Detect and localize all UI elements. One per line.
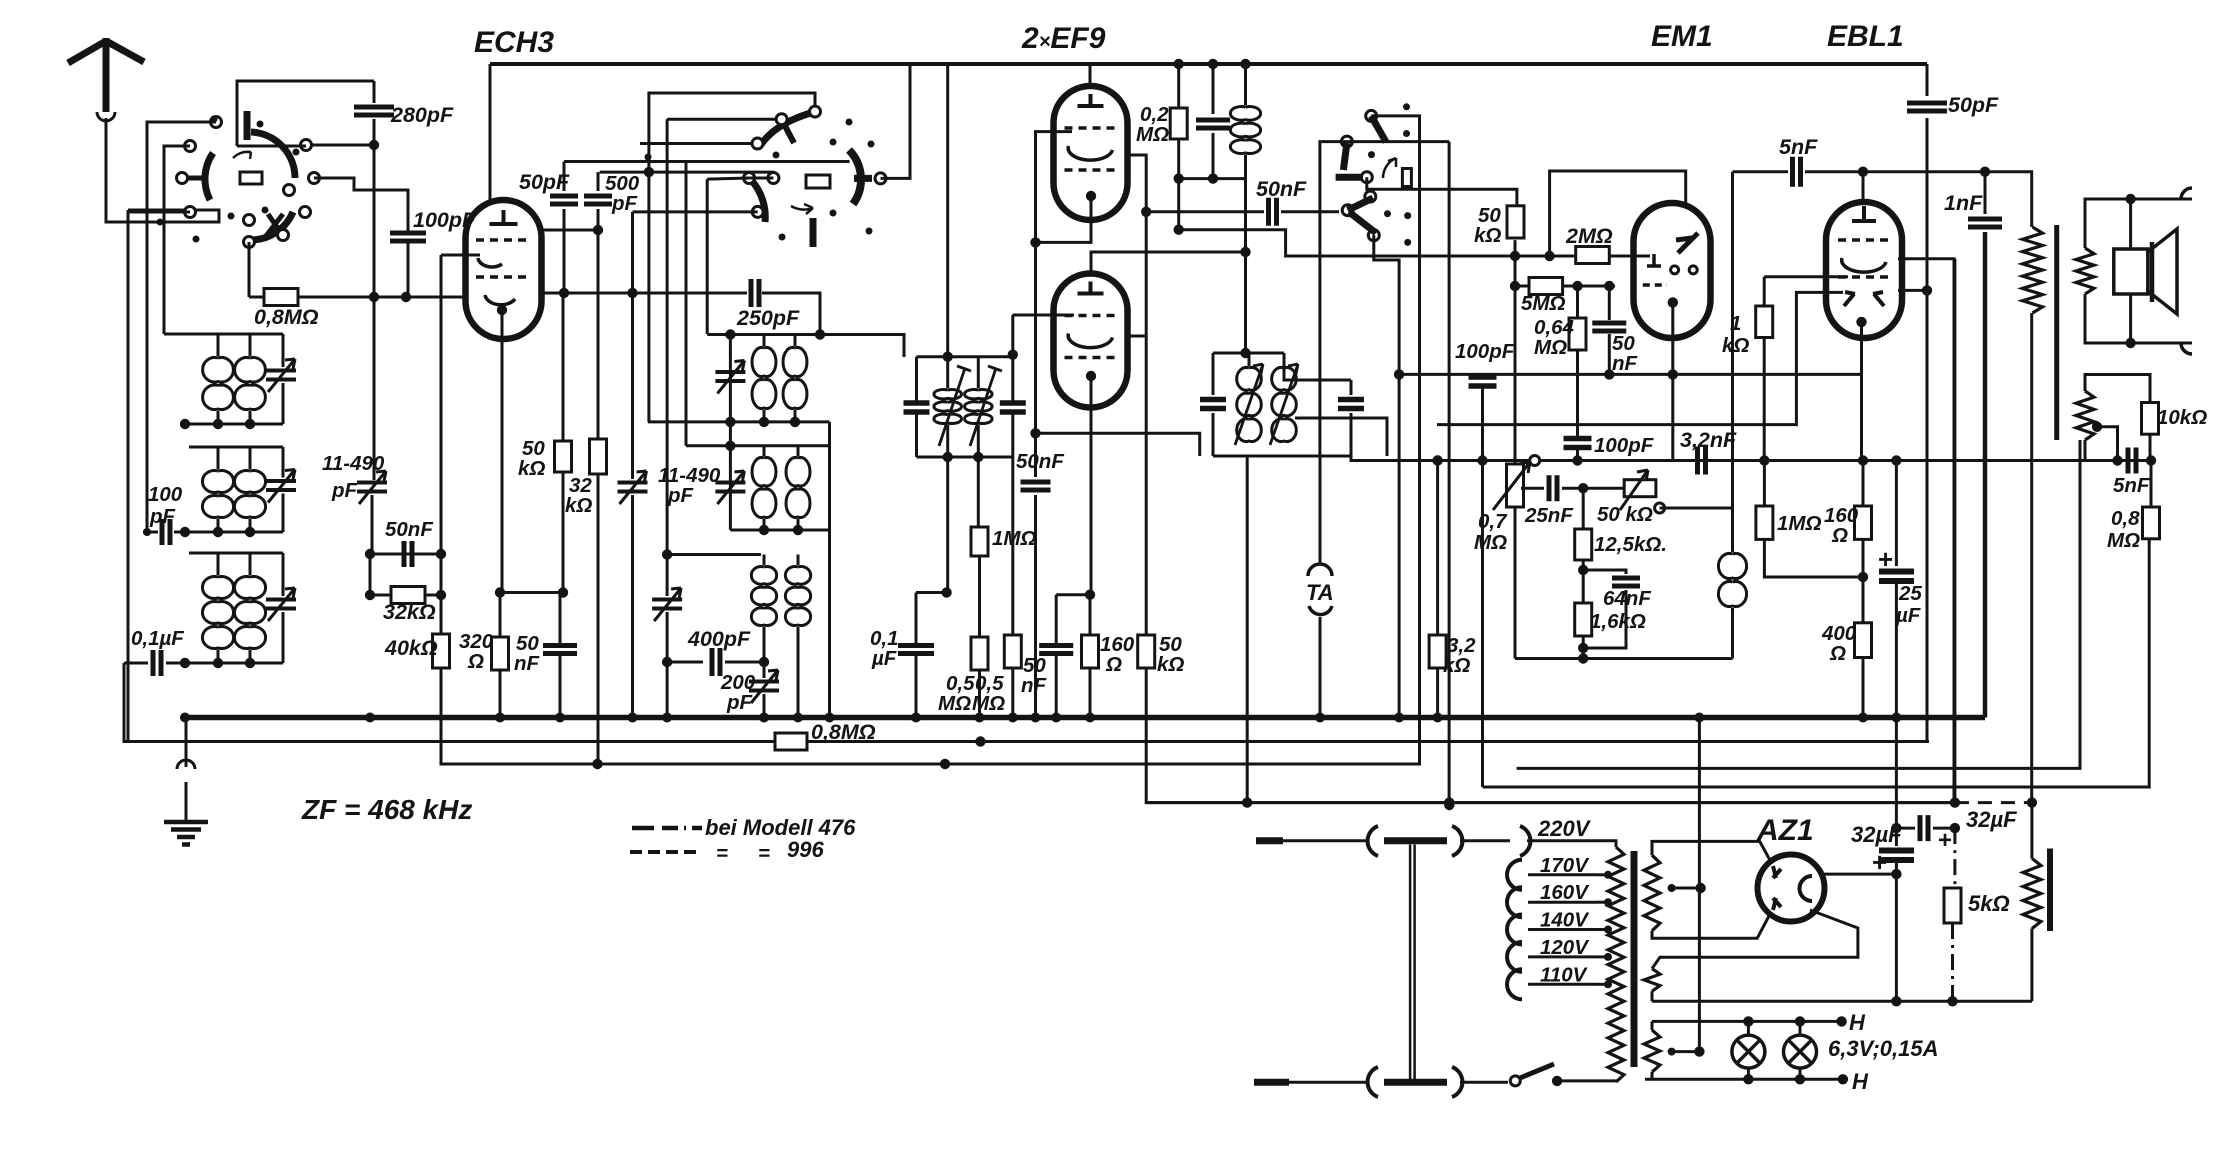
capacitor 25nF	[1521, 487, 1544, 490]
svg-text:32µF: 32µF	[1966, 807, 2017, 832]
svg-text:EBL1: EBL1	[1827, 20, 1904, 53]
wire screen row to switch	[1179, 230, 1515, 256]
capacitor 50nF	[404, 541, 412, 567]
capacitor 280pF	[354, 107, 394, 115]
anode load 0.2M	[1174, 59, 1184, 69]
svg-text:100pF: 100pF	[1594, 434, 1654, 457]
wire screen down	[1145, 336, 1148, 635]
pilot lamps	[1732, 1035, 1765, 1068]
svg-text:170V: 170V	[1540, 854, 1590, 877]
heater tap	[1668, 1048, 1676, 1056]
svg-text:3,2nF: 3,2nF	[1680, 428, 1737, 452]
wire EF9-2 grid	[1013, 314, 1075, 317]
wire box bottom	[237, 145, 306, 148]
wire tank mid rail	[686, 444, 830, 447]
svg-text:50nF: 50nF	[385, 518, 433, 541]
tube EM1	[1634, 203, 1711, 338]
capacitor 5nF feedback	[1733, 170, 1789, 173]
wire IFT1 secondary bottom	[977, 457, 980, 527]
wire switch3 frame left	[1320, 142, 1347, 456]
rectifier AZ1	[1758, 855, 1825, 922]
wire left column x164	[164, 333, 189, 336]
wire grid line	[541, 292, 747, 295]
svg-text:0,8MΩ: 0,8MΩ	[254, 305, 319, 329]
svg-text:AZ1: AZ1	[1756, 814, 1814, 847]
svg-text:MΩ: MΩ	[1474, 531, 1507, 554]
IFT1 secondary coil	[965, 390, 993, 424]
resistor 32k screen	[597, 230, 600, 439]
osc coil 3	[751, 567, 776, 626]
wire tone wiper	[1660, 172, 1733, 508]
rail 3b	[1517, 440, 2080, 768]
svg-text:25nF: 25nF	[1524, 504, 1573, 527]
wire 400pF row	[667, 661, 703, 664]
svg-text:nF: nF	[1612, 352, 1638, 375]
ground symbol	[185, 718, 188, 768]
capacitor 5nF tone	[2128, 448, 2136, 474]
wire AZ1 plate2	[1652, 914, 1770, 938]
wire osc grid	[633, 210, 758, 213]
svg-text:280pF: 280pF	[390, 103, 454, 127]
wire AZ1 plate1	[1652, 841, 1771, 862]
tube EF9 first	[1054, 86, 1128, 220]
capacitor 100pF AVC	[1469, 377, 1497, 386]
tube ECH3	[466, 200, 542, 339]
legend model 996	[630, 850, 696, 854]
capacitor 0.1uF	[124, 662, 148, 665]
svg-text:5nF: 5nF	[2113, 474, 2150, 497]
osc coil 2a	[752, 458, 776, 518]
svg-text:=: =	[716, 842, 728, 865]
capacitor 50pF top	[1926, 64, 1929, 96]
svg-text:kΩ: kΩ	[518, 457, 545, 480]
wire AZ1 filament	[1652, 910, 1858, 969]
mains top lead	[1256, 837, 1283, 844]
transformer core	[1631, 851, 1638, 1067]
EM1 internals	[1676, 233, 1698, 253]
wire switch3 to EM1 grid	[1367, 177, 1517, 206]
resistor 320 ohm	[499, 593, 502, 638]
osc tuning line	[729, 335, 732, 531]
rail 3	[440, 116, 1420, 764]
svg-text:32kΩ: 32kΩ	[383, 600, 436, 624]
potentiometer 50k tone	[1624, 480, 1656, 497]
svg-text:40kΩ: 40kΩ	[384, 636, 438, 660]
anode cap	[1208, 59, 1218, 69]
svg-text:100pF: 100pF	[1455, 340, 1515, 363]
svg-text:pF: pF	[149, 505, 176, 528]
wire EF9-1 grid	[1036, 132, 1073, 477]
variable capacitor osc tank1	[715, 372, 745, 381]
switch S1b lower arc	[252, 212, 293, 240]
IFT1 capacitor primary	[915, 357, 918, 402]
svg-text:TA: TA	[1306, 580, 1334, 605]
switch S1a rotor arc	[251, 132, 295, 178]
wire EF9-2 screen	[1127, 155, 1146, 336]
svg-text:996: 996	[787, 837, 824, 862]
wire x124 left edge	[124, 663, 1929, 742]
variable capacitor padder	[631, 293, 634, 479]
svg-text:64nF: 64nF	[1603, 587, 1651, 610]
OT core	[2054, 225, 2059, 440]
wire 50pF top rail	[564, 160, 850, 163]
svg-text:pF: pF	[331, 479, 358, 502]
switch position dots	[211, 116, 218, 123]
svg-text:MΩ: MΩ	[1534, 336, 1567, 359]
band switch 2 lever arc	[760, 112, 814, 146]
wire antenna down	[106, 118, 219, 222]
svg-text:pF: pF	[726, 691, 753, 714]
variable capacitor tank3	[666, 555, 669, 597]
resistor 50k EM1	[1507, 206, 1524, 238]
wire IFT1 primary return	[946, 457, 949, 593]
potentiometer 0.7M	[1530, 456, 1540, 466]
wire EBL1 cathode	[1856, 317, 1866, 327]
HT center tap	[1668, 884, 1676, 892]
wire 32k row	[370, 554, 441, 595]
wire EBL1 diode1	[1898, 259, 1954, 803]
wire EM1 cathode	[1671, 302, 1674, 460]
wire AVC branch	[1036, 433, 1200, 456]
secondary filament winding	[1644, 969, 1660, 992]
svg-text:400pF: 400pF	[687, 627, 751, 651]
svg-text:H: H	[1849, 1010, 1866, 1035]
resistor 160 ohm EBL1	[1862, 461, 1865, 507]
legend model 476	[632, 826, 702, 831]
variable capacitor 200pF	[763, 662, 766, 678]
svg-text:µF: µF	[871, 647, 897, 670]
wire cathode network	[1056, 593, 1090, 596]
resistor 0.64M	[1576, 286, 1579, 318]
anode coil	[1240, 59, 1250, 69]
svg-text:=: =	[758, 842, 770, 865]
wire x145 column	[146, 146, 149, 532]
rail 4	[1483, 539, 2150, 787]
svg-text:MΩ: MΩ	[972, 692, 1005, 715]
wire ECH3 anode	[489, 64, 492, 202]
wire screen line	[541, 229, 598, 232]
wire terminal 146 left	[164, 146, 190, 334]
svg-text:100: 100	[148, 483, 183, 506]
transformer primary winding	[1608, 847, 1624, 1082]
wire switch3 stub	[1374, 235, 1399, 716]
svg-text:5nF: 5nF	[1779, 135, 1818, 159]
switch 2 terminals	[752, 138, 763, 149]
IFT1 primary coil	[934, 390, 962, 424]
wire 100pF from switch	[314, 178, 408, 232]
wire switch to 0.8M	[248, 242, 251, 297]
capacitor 32uF first	[1895, 718, 1898, 847]
band switch 1 frame box	[237, 81, 374, 146]
resistor 0.5M second	[1011, 315, 1014, 355]
wire tank1 bottom rail	[648, 420, 830, 423]
capacitor 500pF	[597, 172, 600, 191]
resistor 1k	[1763, 277, 1766, 306]
wire AZ1 output	[1824, 873, 1896, 876]
resistor 50k	[562, 293, 565, 441]
input coil set 1	[189, 333, 283, 336]
capacitor 100pF	[390, 233, 426, 241]
resistor 1M	[971, 527, 988, 556]
capacitor 50nF cathode	[559, 593, 562, 644]
primary taps	[1507, 860, 1522, 890]
osc tank 3 top	[667, 553, 761, 556]
svg-text:25: 25	[1898, 582, 1922, 605]
resistor 0.8M AVC	[775, 733, 807, 750]
capacitor 50nF EM1	[1608, 286, 1611, 320]
wire anode to OT	[1863, 170, 1985, 173]
wire 500pF top rail	[600, 172, 773, 178]
resistor 1M bias	[1763, 461, 1766, 507]
svg-text:MΩ: MΩ	[2107, 529, 2140, 552]
svg-text:bei Modell 476: bei Modell 476	[705, 815, 856, 840]
wire EBL1 anode	[1862, 172, 1865, 203]
heater wires	[1652, 1020, 1842, 1023]
svg-text:1MΩ: 1MΩ	[1777, 512, 1821, 535]
resistor 400 ohm	[1862, 577, 1865, 623]
capacitor 50nF AVC	[1021, 482, 1051, 490]
resistor 0.5M first	[971, 637, 988, 670]
wire ECH3 grid1	[441, 254, 480, 257]
resistor 5M	[1515, 285, 1529, 288]
svg-text:kΩ: kΩ	[1157, 653, 1184, 676]
rail 5 dashed-variant	[1146, 801, 1955, 804]
capacitor 64nF	[1583, 570, 1626, 574]
svg-text:+: +	[1938, 827, 1952, 854]
antenna	[68, 38, 144, 112]
tube EBL1	[1826, 202, 1902, 338]
osc coil 1a	[752, 347, 776, 408]
tube EF9 second	[1091, 252, 1246, 271]
wire pot down	[1514, 507, 1517, 659]
wire EM1 grid	[1515, 255, 1650, 258]
wire 100pF down	[1481, 374, 1484, 376]
resistor 12.5k	[1582, 488, 1585, 529]
wire ECH3 cathode	[497, 305, 507, 315]
svg-text:µF: µF	[1895, 604, 1921, 627]
IFT2 cap secondary	[1350, 380, 1353, 395]
speaker loop	[2085, 199, 2192, 248]
wire tank top rail	[707, 335, 904, 358]
wire left vertical to bottom rail	[127, 210, 130, 742]
capacitor 0.1uF EF9 cathode	[915, 593, 918, 644]
input coil set 3	[189, 552, 283, 555]
switch S1 rotor center	[240, 172, 262, 184]
svg-text:kΩ: kΩ	[1722, 334, 1749, 357]
wire terminal 212	[128, 211, 190, 214]
wire switch3 frame top	[1371, 116, 1419, 764]
svg-text:1nF: 1nF	[1944, 191, 1983, 215]
svg-text:kΩ: kΩ	[1474, 224, 1501, 247]
capacitor 1nF	[1984, 172, 1987, 214]
capacitor 50nF cathode EF9-2	[1039, 646, 1073, 654]
svg-text:50nF: 50nF	[1016, 450, 1064, 473]
svg-text:Ω: Ω	[1105, 653, 1122, 676]
resistor 1.6k	[1575, 603, 1592, 636]
switch 2 rotor center	[806, 175, 830, 188]
IFT2 cap primary	[1212, 353, 1215, 395]
svg-text:H: H	[1852, 1069, 1869, 1094]
wire anode RLC bottom	[1179, 177, 1246, 180]
switch S1a left arc	[205, 153, 213, 200]
resistor 2M	[1576, 247, 1610, 264]
svg-text:kΩ: kΩ	[1443, 654, 1470, 677]
resistor 50k screen divider	[1138, 635, 1155, 668]
wire EF9-2 cathode	[1086, 371, 1096, 381]
svg-text:5kΩ: 5kΩ	[1968, 891, 2010, 916]
capacitor 100pF inline	[143, 531, 158, 534]
wire switch2 frame 3	[640, 142, 758, 145]
svg-text:0,7: 0,7	[1478, 510, 1508, 533]
wire anode to IFT2	[1244, 179, 1247, 353]
resistor 0.8 Mohm input	[249, 296, 264, 299]
wire switch terminal right	[306, 144, 374, 147]
variable capacitor 11-490pF gang1	[357, 483, 387, 492]
speaker	[2129, 199, 2132, 249]
IFT1 bottom rail	[917, 456, 1013, 459]
wire DC bottom	[1652, 1000, 2032, 1003]
capacitor 25uF	[1895, 461, 1898, 567]
input coil set 2	[189, 446, 283, 449]
svg-text:nF: nF	[514, 652, 540, 675]
wire switch3 frame right	[1347, 140, 1449, 143]
capacitor 400pF	[712, 648, 720, 676]
osc coil 1b	[783, 347, 807, 408]
svg-text:EM1: EM1	[1651, 20, 1713, 53]
IFT2 primary coil	[1237, 367, 1262, 441]
resistor 5k bleeder	[1953, 828, 1956, 888]
svg-text:140V: 140V	[1540, 909, 1590, 932]
svg-text:160V: 160V	[1540, 881, 1590, 904]
capacitor 3.2nF	[1698, 447, 1706, 475]
IFT1 capacitor secondary	[1011, 355, 1014, 402]
svg-text:MΩ: MΩ	[938, 692, 971, 715]
switch terminals	[211, 117, 222, 128]
wire 50pF rail end	[685, 162, 688, 446]
IFT2 secondary coil	[1272, 367, 1297, 441]
wire AVC long	[1399, 373, 1863, 376]
wire 250pF row	[751, 279, 759, 307]
svg-text:2MΩ: 2MΩ	[1565, 224, 1613, 248]
wire EM1 anode hat	[1550, 171, 1686, 254]
wire terminal 122 left	[147, 122, 216, 146]
secondary 6.3V winding	[1651, 1021, 1654, 1030]
svg-text:50pF: 50pF	[519, 170, 570, 194]
secondary HT winding	[1644, 855, 1660, 931]
svg-text:ZF = 468 kHz: ZF = 468 kHz	[301, 794, 472, 825]
svg-text:Ω: Ω	[467, 650, 484, 673]
wire EF9-1 cathode	[1086, 191, 1096, 201]
capacitor 100pF ratio detector	[1564, 439, 1592, 448]
resistor 3.2k	[1436, 461, 1439, 636]
svg-text:ECH3: ECH3	[474, 26, 554, 59]
rail 2 anode supply	[975, 736, 985, 746]
osc coil 2b	[786, 458, 810, 518]
svg-text:nF: nF	[1021, 674, 1047, 697]
capacitor 32uF second	[1891, 823, 1901, 833]
switch 2 dots	[773, 152, 780, 159]
wire switch2 mid terminals	[707, 178, 749, 179]
svg-text:0,8MΩ: 0,8MΩ	[811, 720, 876, 744]
svg-text:kΩ: kΩ	[565, 494, 592, 517]
capacitor 50pF	[563, 162, 566, 192]
svg-text:0,8: 0,8	[2111, 507, 2140, 530]
svg-text:50nF: 50nF	[1256, 177, 1307, 201]
IF transformer 2	[1213, 352, 1284, 355]
resistor 10k	[2142, 403, 2159, 435]
coil EM1	[1718, 554, 1746, 607]
wire EF9-1 anode	[1089, 64, 1092, 87]
svg-text:MΩ: MΩ	[1136, 123, 1169, 146]
band switch 2 right arc	[849, 150, 861, 204]
wire cathode return	[1515, 657, 1733, 660]
svg-text:Ω: Ω	[1831, 524, 1848, 547]
svg-text:10kΩ: 10kΩ	[2157, 406, 2207, 429]
svg-text:pF: pF	[667, 484, 694, 507]
wire EBL1 grid	[1764, 275, 1848, 278]
chassis boundary lines	[1410, 845, 1415, 1081]
wire x1247 AVC	[1246, 456, 1249, 803]
svg-text:Ω: Ω	[1829, 642, 1846, 665]
IF transformer 1 top rail	[917, 355, 1013, 358]
svg-text:1,6kΩ: 1,6kΩ	[1590, 610, 1646, 633]
wire 50nF row	[370, 553, 441, 556]
svg-text:50pF: 50pF	[1948, 93, 1999, 117]
resistor 0.8M right	[2150, 461, 2153, 508]
field coil	[2030, 803, 2033, 859]
mains switch	[1510, 1076, 1520, 1086]
svg-text:120V: 120V	[1540, 936, 1590, 959]
svg-text:110V: 110V	[1540, 963, 1589, 986]
wire switch2 frame 2	[667, 118, 782, 121]
wire field coil supply	[1953, 259, 1956, 803]
wire switch2 top frame	[649, 93, 815, 422]
wire IFT2 sec top	[1284, 366, 1351, 380]
wire cathode row	[500, 591, 563, 594]
band switch 2 lower arc	[752, 181, 813, 247]
output transformer primary	[2023, 227, 2043, 313]
svg-text:1: 1	[1730, 312, 1741, 335]
capacitor 50nF coupling	[1146, 210, 1264, 213]
mains bottom lead	[1254, 1079, 1289, 1086]
wire heater ground	[1698, 716, 1701, 1052]
svg-text:50 kΩ: 50 kΩ	[1597, 503, 1653, 526]
svg-text:5MΩ: 5MΩ	[1521, 292, 1565, 315]
variable capacitor osc tank2	[715, 483, 745, 492]
band switch 3	[1342, 205, 1353, 216]
antenna coupling break	[97, 112, 115, 121]
OT secondary	[2076, 248, 2094, 294]
svg-text:2×EF9: 2×EF9	[1021, 22, 1106, 55]
wire EBL1 diode2	[1898, 289, 1927, 292]
wire switch2 right	[881, 64, 911, 178]
wire volume line	[1351, 456, 2151, 461]
svg-text:11-490: 11-490	[322, 452, 385, 475]
top supply bus	[490, 62, 1927, 66]
switch 2 contact bar	[854, 175, 872, 182]
ground bus	[185, 715, 1985, 721]
resistor 160 ohm	[1089, 595, 1092, 635]
wire AF line	[1437, 292, 1843, 424]
wire IFT1 supply	[946, 64, 949, 357]
svg-text:0,1µF: 0,1µF	[131, 627, 184, 650]
feedback tap	[2092, 422, 2102, 432]
feedback winding	[2076, 391, 2094, 440]
wire 280pF top	[373, 81, 376, 103]
svg-text:+: +	[1878, 544, 1893, 574]
wire tank right vertical	[828, 422, 831, 718]
resistor 40k	[440, 255, 443, 634]
